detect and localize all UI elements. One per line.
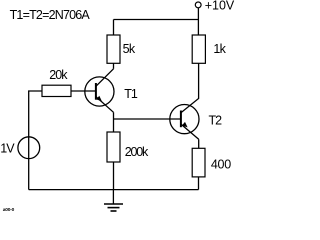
svg-text:T2: T2	[209, 114, 223, 128]
wire: top rail	[114, 19, 199, 21]
resistor 400	[192, 148, 205, 177]
wire: T1 collector lead	[96, 69, 114, 87]
svg-text:5k: 5k	[123, 42, 136, 56]
wire: rail to 1k top	[197, 20, 199, 36]
resistor 20k	[42, 85, 71, 96]
wire: emitter node to T2 base	[114, 118, 182, 120]
wire: 5k bottom stub	[113, 63, 115, 69]
svg-text:1k: 1k	[213, 42, 226, 56]
resistor 1k	[192, 35, 205, 63]
wire: 400 bottom stub	[198, 177, 200, 190]
wire: 200k bottom stub	[113, 162, 115, 190]
resistor 200k	[107, 132, 120, 162]
resistor 5k	[107, 35, 120, 63]
+10V supply terminal	[195, 2, 201, 8]
svg-text:T1: T1	[124, 87, 138, 101]
svg-text:200k: 200k	[125, 145, 149, 159]
wire: 20k to T1 base	[71, 90, 96, 92]
wire: T2 collector lead	[181, 63, 199, 112]
transistor T2	[170, 105, 199, 140]
ground	[104, 190, 123, 211]
wire: bottom rail	[29, 189, 199, 191]
wire: 20k left corner to 1V	[29, 91, 42, 190]
transistor T1	[85, 77, 114, 112]
svg-text:+10V: +10V	[205, 0, 235, 13]
wire: T1 emitter down to 200k	[113, 112, 115, 132]
svg-text:a00-0: a00-0	[3, 207, 15, 213]
wire: rail to R1 top	[113, 20, 115, 36]
svg-text:400: 400	[211, 158, 231, 172]
wire: T2 emitter to 400	[198, 139, 200, 148]
svg-text:T1=T2=2N706A: T1=T2=2N706A	[10, 8, 91, 22]
svg-text:20k: 20k	[49, 68, 68, 82]
wire: terminal stem	[197, 8, 199, 20]
voltage source 1V	[18, 137, 40, 159]
svg-text:1V: 1V	[0, 141, 15, 155]
